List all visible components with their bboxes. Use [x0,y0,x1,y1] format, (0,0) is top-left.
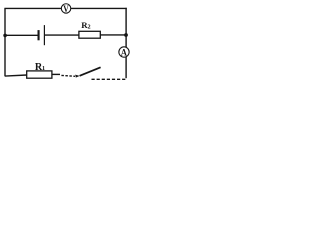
wire: battery to resistor R2 [45,34,79,36]
wire: right side, top corner down to ammeter [125,8,127,47]
voltmeter V [61,4,70,15]
switch S: hinge contact [75,75,80,78]
svg-text:2: 2 [88,23,91,30]
resistor R1 (box) [27,71,52,78]
wire: bottom-left corner to resistor R1 [5,75,27,76]
wire: right side, below ammeter [125,57,127,78]
wire (dashed): switch to bottom-right corner [92,78,126,80]
switch S: open blade [80,67,101,76]
wire: resistor R2 to right side [100,34,126,36]
label R2 [81,20,90,31]
resistor R2 (box) [79,31,100,38]
wire (dashed): R1 lead to switch hinge [61,74,75,77]
node: junction of middle branch with right side [124,33,128,37]
battery cell: long (positive) plate [44,25,45,45]
wire: middle branch, junction to battery [5,34,38,36]
svg-text:1: 1 [42,65,45,72]
wire: top side, right of voltmeter [71,7,127,9]
wire: left side of loop [4,8,6,76]
wire: resistor R1 right lead [52,73,60,75]
battery cell: short (negative) plate [38,30,40,40]
node: junction of middle branch with left side [3,34,7,38]
wire: top side, left of voltmeter [4,7,61,9]
svg-text:V: V [63,5,69,15]
ammeter A [119,47,129,59]
label R1 [35,62,45,73]
